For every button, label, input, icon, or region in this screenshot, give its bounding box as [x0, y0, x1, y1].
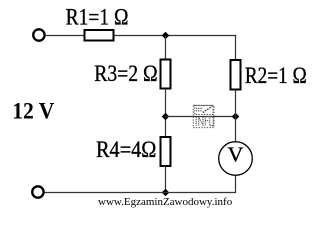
svg-text:www.EgzaminZawodowy.info: www.EgzaminZawodowy.info	[98, 196, 233, 208]
resistor R4	[161, 137, 171, 166]
svg-text:R3=2 Ω: R3=2 Ω	[94, 61, 158, 86]
wire top: terminal to R1	[45, 35, 85, 37]
svg-text:V: V	[228, 143, 244, 167]
node D junction (bottom wire / R4 branch)	[162, 189, 170, 197]
svg-text:12 V: 12 V	[12, 98, 55, 123]
wire: R2 to voltmeter	[235, 90, 237, 143]
wire right branch corner vertical	[235, 35, 237, 36]
wire: R4 to bottom wire	[165, 166, 167, 193]
wire: voltmeter to bottom wire	[235, 175, 237, 192]
terminal bottom-left	[32, 186, 43, 197]
svg-text:R1=1 Ω: R1=1 Ω	[66, 5, 129, 30]
node A junction (top of middle branch)	[162, 32, 170, 40]
svg-text:R4=4Ω: R4=4Ω	[96, 137, 156, 162]
resistor R3	[161, 60, 171, 89]
svg-text:R2=1 Ω: R2=1 Ω	[245, 63, 307, 88]
resistor R1	[85, 30, 114, 41]
watermark EgzaminZawodowy logo	[193, 105, 214, 127]
terminal top-left	[33, 29, 44, 40]
wire right branch upper: top wire to R2	[235, 36, 237, 61]
resistor R2	[231, 60, 241, 90]
wire top: R1 to right corner	[114, 35, 237, 37]
wire middle branch upper: node A to R3	[165, 36, 167, 60]
node C junction (right branch / middle wire)	[232, 113, 240, 121]
node B junction (middle branch / middle wire)	[162, 113, 170, 121]
wire: R3 to node B	[165, 89, 167, 138]
wire bottom	[44, 192, 237, 194]
wire middle horizontal: node B to node C	[166, 116, 237, 118]
voltmeter U1	[219, 142, 253, 176]
